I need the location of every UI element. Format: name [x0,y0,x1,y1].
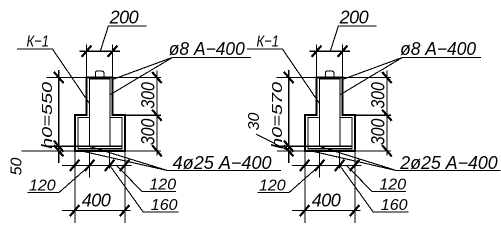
dimension 200: left tick [312,46,322,57]
bottom bars label: underline [397,170,501,172]
dimension h0: extension line top [277,77,317,79]
label ø8 А-400: leader to side stirrup [110,57,172,94]
bar spacing tick 3 [335,160,345,171]
bottom bars label: leader 1 [90,147,168,171]
dimension 300 top tick [152,72,162,83]
dimension h0 top tick [284,72,294,83]
svg-text:h0=570: h0=570 [269,81,286,149]
cover dimension 30: leader [256,134,289,151]
svg-text:200: 200 [109,8,139,28]
bar spacing tick 4 [350,160,360,171]
svg-text:К−1: К−1 [27,34,50,51]
bar spacing dimension line 120/160/120 [62,164,132,166]
dimension 200: extension lines [86,44,88,77]
dimension 120 right: underline and leader [347,166,406,192]
dimension 200: leader and underline [100,26,146,51]
base bottom extension line / leader for 50 [22,150,76,152]
footing extension line right (to 400 dim) [124,151,126,223]
dimension 300 bottom tick [382,145,392,156]
label stirrups ø8 А-400: underline [403,56,482,58]
dimension h0: dimension line [288,70,290,163]
dimension 300+300: extension line bottom [125,150,161,152]
dimension 200: right tick [338,46,348,57]
rebar outlet bump at column top [95,71,104,78]
svg-text:200: 200 [339,8,369,28]
base bottom extension line (right figure) [277,150,305,152]
dimension 400: dimension line [62,210,131,212]
dimension 300+300: extension line top [343,77,392,79]
bar spacing tick 1 [300,160,310,171]
label ø8 А-400: leader to top stirrup [342,57,402,79]
svg-text:300: 300 [367,119,389,146]
bar spacing tick 2 [85,160,95,171]
dimension 120 right: underline and leader [117,166,176,192]
dimension 160: underline and leader [340,166,409,212]
cover dimension tick [284,145,294,156]
dimension h0: extension line at rebar level [276,145,308,147]
dimension 300+300: extension line middle [125,114,161,116]
svg-text:400: 400 [312,191,341,211]
dimension 300 middle tick [382,110,392,121]
mark K-1: underline and leader [247,49,320,104]
label stirrups ø8 А-400: underline [173,56,252,58]
svg-text:К−1: К−1 [257,34,280,51]
dimension 300 bottom tick [152,145,162,156]
bar position extension stub 1 [89,151,91,178]
svg-text:ø8 А−400: ø8 А−400 [400,39,476,59]
bar spacing tick 4 [120,160,130,171]
reinforcement cage inner line [78,79,122,149]
dimension h0: extension line at rebar level [46,145,78,147]
footing extension line left (to 400 dim) [304,151,306,223]
dimension 160: underline and leader [110,166,179,212]
vertical rebar left [89,118,91,147]
dimension h0: dimension line [58,70,60,163]
label ø8 А-400: leader to side stirrup [340,57,402,94]
dimension 200: extension lines [316,44,318,77]
dimension 200: dimension line [310,50,350,52]
dimension 400: dimension line [292,210,361,212]
bar spacing tick 1 [70,160,80,171]
foundation outline (column on stepped footing) [305,78,355,151]
svg-text:ø8 А−400: ø8 А−400 [169,39,245,59]
bottom rebar (thick bar) [78,145,121,147]
dimension 300 top tick [382,72,392,83]
dimension 200: left tick [82,46,92,57]
dimension 120 left: underline and leader [27,166,89,192]
bottom bars label: leader 2 [309,150,397,170]
dimension 200: dimension line [80,50,120,52]
footing extension line right (to 400 dim) [354,151,356,223]
svg-text:400: 400 [82,191,111,211]
bar position extension stub 2 [339,151,341,169]
footing extension line left (to 400 dim) [74,151,76,223]
bottom rebar (thick bar) [308,145,351,147]
dimension h0 top tick [54,72,64,83]
bottom bars label: leader 1 [320,147,397,171]
dimension 300+300: extension line middle [355,114,391,116]
dimension 200: leader and underline [330,26,376,51]
foundation outline (column on stepped footing) [75,78,125,151]
bar position extension stub 1 [319,151,321,178]
svg-text:50: 50 [8,158,25,176]
dimension 400 left tick [300,205,310,216]
dimension h0 rebar tick [284,141,294,152]
dimension h0 rebar tick [54,141,64,152]
vertical rebar left [319,118,321,147]
svg-text:300: 300 [367,82,389,109]
reinforcement cage inner line [308,79,352,149]
dimension 300+300: extension line top [113,77,162,79]
rebar outlet bump at column top [325,71,334,78]
dimension 120 left: underline and leader [257,166,319,192]
svg-text:h0=550: h0=550 [39,81,56,149]
label ø8 А-400: leader to top stirrup [112,57,172,79]
vertical rebar right [339,118,341,147]
cover dimension tick [54,145,64,156]
mark K-1: underline and leader [17,49,90,104]
dimension h0: extension line top [47,77,87,79]
dimension 400 left tick [70,205,80,216]
dimension 300+300: dimension line [156,70,158,155]
bottom bars label: underline [168,170,281,172]
bar spacing tick 2 [315,160,325,171]
dimension 300+300: extension line bottom [355,150,391,152]
dimension 300 middle tick [152,110,162,121]
bottom bars label: leader 2 [79,150,168,170]
svg-text:300: 300 [137,82,159,109]
bar position extension stub 2 [109,151,111,169]
dimension 400 right tick [350,205,360,216]
vertical rebar right [109,118,111,147]
dimension 200: right tick [108,46,118,57]
dimension 300+300: dimension line [386,70,388,155]
bar spacing dimension line 120/160/120 [292,164,362,166]
bar spacing tick 3 [105,160,115,171]
dimension 400 right tick [120,205,130,216]
svg-text:30: 30 [246,113,263,131]
svg-text:300: 300 [137,119,159,146]
